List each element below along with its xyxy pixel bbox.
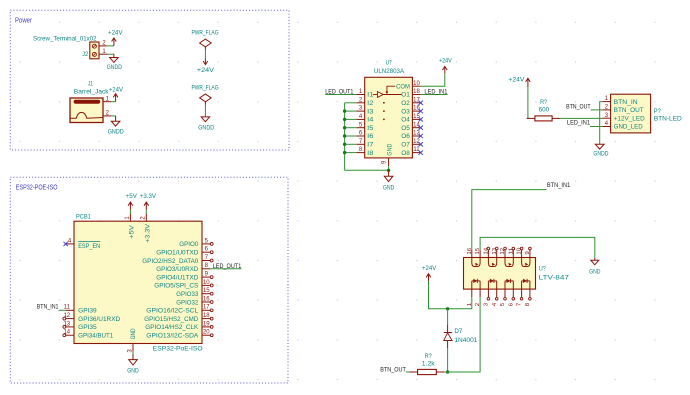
svg-text:GPIO14/HS2_CLK: GPIO14/HS2_CLK: [145, 325, 198, 331]
svg-text:PCB1: PCB1: [76, 213, 91, 220]
svg-text:U?: U?: [539, 266, 546, 273]
svg-text:GPIO33: GPIO33: [176, 292, 199, 298]
svg-text:LED_IN1: LED_IN1: [567, 119, 590, 126]
svg-text:+24V: +24V: [108, 30, 123, 36]
svg-text:+5V: +5V: [126, 194, 137, 200]
pin 8 of U? LTV-847 (bottom): [529, 289, 531, 297]
svg-text:GPIO2/HS2_DATA0: GPIO2/HS2_DATA0: [142, 259, 199, 265]
pin 20 GPIO13/I2C-SDA of PCB1: [202, 334, 210, 336]
power GND below PCB1: [132, 354, 134, 360]
svg-text:17: 17: [203, 305, 210, 311]
wire J2 pin1 to GNDD: [107, 53, 114, 55]
svg-text:GPIO0: GPIO0: [179, 242, 199, 248]
pin 14 O5 of U? (no-connect): [412, 127, 420, 129]
svg-text:J1: J1: [88, 81, 93, 88]
junction at D7 anode wire: [446, 307, 449, 310]
pin 4 ESP_EN of PCB1 (no-connect): [66, 243, 74, 245]
optocoupler cell 4 LED: [521, 281, 523, 289]
power +24V at ULN COM: [444, 67, 446, 74]
svg-text:+5V: +5V: [129, 225, 135, 239]
svg-text:I5: I5: [367, 126, 374, 132]
power GND below ULN: [388, 170, 390, 176]
pin 2 of J2: [99, 45, 107, 47]
junction at I8: [343, 151, 346, 154]
svg-text:LED_OUT1: LED_OUT1: [213, 263, 242, 270]
svg-text:LED_IN1: LED_IN1: [424, 88, 447, 95]
svg-text:11: 11: [508, 248, 514, 255]
optocoupler cell 2 phototransistor: [488, 258, 496, 267]
svg-text:P?: P?: [654, 108, 662, 115]
svg-text:6: 6: [508, 303, 514, 306]
pin 1 BTN_IN of P?: [602, 101, 610, 103]
svg-text:GND: GND: [383, 186, 395, 192]
svg-text:I4: I4: [367, 118, 374, 124]
svg-text:7: 7: [517, 303, 523, 306]
svg-text:GND_LED: GND_LED: [614, 125, 644, 131]
wire PWR_FLAG to GNDD: [204, 105, 206, 117]
svg-text:13: 13: [413, 131, 420, 137]
wire to I7: [345, 143, 357, 145]
svg-text:+3.3V: +3.3V: [140, 194, 156, 200]
pin 4 I4 of U? ULN2803A: [356, 118, 364, 120]
pin 3 +12V_LED of P?: [602, 117, 610, 119]
wire pin1 to +5V: [129, 210, 131, 214]
svg-text:+24V: +24V: [422, 266, 436, 272]
wire pin2 to +3.3V: [145, 210, 147, 214]
pin 4 GND_LED of P?: [602, 126, 610, 128]
svg-text:BTN_IN1: BTN_IN1: [547, 182, 571, 189]
svg-text:14: 14: [63, 330, 70, 336]
wire J2 pin2 to +24V: [107, 45, 114, 47]
svg-text:16: 16: [203, 296, 210, 302]
svg-text:J2: J2: [82, 51, 89, 58]
wire LED_IN1 to pin4: [590, 126, 602, 128]
svg-text:1.2k: 1.2k: [422, 361, 436, 368]
wire to I4: [345, 118, 357, 120]
svg-text:I8: I8: [367, 151, 374, 157]
power GNDD at J1: [115, 116, 117, 121]
wire O1 to LED_IN1: [421, 94, 448, 96]
svg-text:GPI36/U1RXD: GPI36/U1RXD: [78, 317, 121, 323]
pin 6 I6 of U? ULN2803A: [356, 135, 364, 137]
svg-text:I1: I1: [367, 93, 374, 99]
pin 15 GPIO33 of PCB1: [202, 293, 210, 295]
wire to I2: [345, 102, 357, 104]
svg-text:LTV-847: LTV-847: [539, 275, 570, 282]
svg-text:BTN_OUT: BTN_OUT: [380, 366, 406, 373]
wire bus to GND junction: [345, 169, 389, 171]
svg-text:1N4001: 1N4001: [454, 337, 478, 344]
wire pin9 to GND: [388, 166, 390, 170]
svg-text:D7: D7: [454, 328, 463, 335]
pin 15 O4 of U? (no-connect): [412, 118, 420, 120]
pin 13 of U? LTV-847 (top): [496, 250, 498, 258]
svg-text:O2: O2: [401, 101, 410, 107]
pin 16 O3 of U? (no-connect): [412, 110, 420, 112]
junction at I7: [343, 143, 346, 146]
wire pin15 to GND: [480, 237, 595, 258]
ULN2803A internal driver symbol: [377, 92, 383, 98]
pin 2 +3.3V of PCB1: [145, 214, 147, 222]
svg-text:GPIO5/SPI_CS: GPIO5/SPI_CS: [154, 284, 198, 290]
svg-text:GPI35: GPI35: [78, 325, 97, 331]
svg-text:15: 15: [203, 288, 210, 294]
wire +24V to pin1 of LTV: [429, 281, 472, 309]
svg-text:GPIO3/U0RXD: GPIO3/U0RXD: [156, 267, 199, 273]
svg-text:COM: COM: [396, 84, 410, 90]
resistor R? 1.2k: [409, 371, 417, 373]
svg-text:13: 13: [63, 321, 70, 327]
svg-text:GPIO32: GPIO32: [176, 300, 199, 306]
pin 5 of U? LTV-847 (bottom): [504, 289, 506, 297]
section box ESP32-POE-ISO: [10, 177, 288, 383]
svg-text:U?: U?: [386, 59, 392, 66]
pin 15 of U? LTV-847 (top): [479, 250, 481, 258]
svg-text:I3: I3: [367, 109, 374, 115]
svg-text:14: 14: [413, 122, 420, 128]
wire BTN_IN1 to pin 11: [59, 309, 66, 311]
svg-text:BTN-LED: BTN-LED: [654, 116, 683, 123]
svg-text:Screw_Terminal_01x02: Screw_Terminal_01x02: [33, 36, 97, 43]
svg-text:10: 10: [203, 280, 210, 286]
pin 16 GPIO32 of PCB1: [202, 301, 210, 303]
optocoupler cell 4 phototransistor: [522, 258, 530, 267]
pin 8 GPIO3/U0RXD of PCB1: [202, 268, 210, 270]
junction at I4: [343, 118, 346, 121]
wire to I5: [345, 127, 357, 129]
svg-text:12: 12: [413, 139, 420, 145]
svg-text:GPI34/BUT1: GPI34/BUT1: [78, 334, 114, 340]
svg-text:ESP32-PoE-ISO: ESP32-PoE-ISO: [153, 346, 203, 353]
svg-text:ULN2803A: ULN2803A: [374, 68, 405, 75]
power +24V at LTV: [428, 274, 430, 281]
optocoupler cell 2 LED: [487, 281, 489, 289]
svg-text:PWR_FLAG: PWR_FLAG: [191, 86, 218, 92]
pin 18 GPIO15/HS2_CMD of PCB1: [202, 318, 210, 320]
pin 13 GPI35 of PCB1 (unconnected): [66, 326, 74, 328]
pin 13 O6 of U? (no-connect): [412, 135, 420, 137]
svg-text:R?: R?: [540, 99, 547, 106]
svg-text:BTN_OUT: BTN_OUT: [614, 108, 644, 114]
svg-text:R?: R?: [425, 353, 432, 360]
svg-text:18: 18: [203, 313, 210, 319]
svg-text:GNDD: GNDD: [593, 152, 609, 158]
power GND right of LTV: [594, 258, 596, 260]
IC U? ULN2803A body: [365, 77, 413, 158]
pin 12 GPI36/U1RXD of PCB1 (unconnected): [66, 318, 74, 320]
power +24V at J2: [113, 38, 115, 46]
svg-text:+3.3V: +3.3V: [145, 224, 151, 243]
junction at I3: [343, 109, 346, 112]
wire BTN_IN1 to pin16: [472, 190, 547, 250]
svg-text:4: 4: [492, 303, 498, 306]
pin 3 of U? LTV-847 (bottom): [487, 289, 489, 297]
pin 10 of U? LTV-847 (top): [521, 250, 523, 258]
svg-text:GND: GND: [589, 270, 601, 276]
power +24V below PWR_FLAG: [204, 58, 206, 64]
wire to I6: [345, 135, 357, 137]
pin 11 O8 of U? (no-connect): [412, 152, 420, 154]
pin 1 +5V of PCB1: [129, 214, 131, 222]
power GNDD at J2: [113, 54, 115, 57]
pin 2 BTN_OUT of P?: [602, 109, 610, 111]
connector P? BTN-LED body: [611, 94, 651, 133]
power +24V at J1: [115, 94, 117, 102]
svg-text:+24V: +24V: [197, 68, 214, 74]
wire resistor to pin3 +12V_LED: [560, 117, 602, 119]
svg-text:13: 13: [492, 248, 498, 255]
power +3.3V: [145, 203, 147, 210]
pin 4 of U? LTV-847 (bottom): [496, 289, 498, 297]
pin 5 GPIO0 of PCB1: [202, 243, 210, 245]
pin 1 of J2: [99, 53, 107, 55]
svg-text:Power: Power: [15, 17, 33, 24]
svg-text:16: 16: [413, 106, 420, 112]
svg-text:10: 10: [413, 81, 420, 87]
pin 3 GND of PCB1: [132, 344, 134, 352]
pin 10 COM of U?: [412, 85, 420, 87]
wire to I3: [345, 110, 357, 112]
svg-text:GPIO16/I2C-SCL: GPIO16/I2C-SCL: [146, 309, 199, 315]
pin 7 GPIO2/HS2_DATA0 of PCB1: [202, 260, 210, 262]
pin 19 GPIO14/HS2_CLK of PCB1: [202, 326, 210, 328]
svg-text:5: 5: [500, 303, 506, 306]
pin 14 GPI34/BUT1 of PCB1 (unconnected): [66, 334, 74, 336]
pin 17 GPIO16/I2C-SCL of PCB1: [202, 309, 210, 311]
pin 6 of U? LTV-847 (bottom): [512, 289, 514, 297]
resistor R? 600: [527, 117, 535, 119]
svg-text:600: 600: [539, 106, 550, 113]
wire J1 pin1 to +24V: [111, 101, 115, 103]
wire pin1 BTN_IN to GNDD: [600, 102, 603, 144]
svg-text:I7: I7: [367, 143, 374, 149]
connector J2 Screw_Terminal_01x02: [90, 42, 99, 59]
wire J1 pin2 to GNDD: [111, 115, 115, 117]
pin 10 GPIO5/SPI_CS of PCB1: [202, 284, 210, 286]
power GNDD below PWR_FLAG: [201, 117, 209, 122]
svg-text:+24V: +24V: [109, 87, 123, 93]
module PCB1 ESP32-PoE-ISO body: [74, 221, 202, 343]
svg-text:GPIO4/U1TXD: GPIO4/U1TXD: [156, 275, 199, 281]
svg-text:GND: GND: [127, 368, 139, 374]
pin 9 of U? LTV-847 (top): [529, 250, 531, 258]
svg-text:15: 15: [413, 114, 420, 120]
optocoupler cell 1 phototransistor: [472, 258, 480, 267]
svg-text:GNDD: GNDD: [107, 65, 123, 71]
pin 9 GPIO4/U1TXD of PCB1: [202, 276, 210, 278]
section box Power: [10, 10, 289, 150]
IC U? LTV-847 body: [464, 258, 536, 290]
svg-text:+12V_LED: +12V_LED: [614, 116, 646, 122]
diode D7 1N4001: [447, 309, 449, 325]
svg-text:Barrel_Jack: Barrel_Jack: [74, 88, 110, 95]
svg-text:18: 18: [413, 89, 420, 95]
svg-text:BTN_IN1: BTN_IN1: [37, 304, 59, 311]
optocoupler cell 3 LED: [504, 281, 506, 289]
svg-text:GPIO13/I2C-SDA: GPIO13/I2C-SDA: [146, 334, 198, 340]
svg-text:O3: O3: [401, 109, 410, 115]
svg-text:9: 9: [525, 251, 531, 254]
junction at I6: [343, 134, 346, 137]
pin 5 I5 of U? ULN2803A: [356, 127, 364, 129]
svg-text:GNDD: GNDD: [108, 129, 125, 135]
power +24V at R600: [527, 79, 529, 87]
pin 3 I3 of U? ULN2803A: [356, 110, 364, 112]
svg-text:O8: O8: [401, 151, 410, 157]
svg-text:17: 17: [413, 97, 420, 103]
junction at ULN GND: [387, 169, 390, 172]
pin 12 of U? LTV-847 (top): [504, 250, 506, 258]
power GNDD below P?: [595, 144, 604, 149]
power +5V: [129, 203, 131, 210]
pin 7 of U? LTV-847 (bottom): [521, 289, 523, 297]
svg-text:8: 8: [525, 303, 531, 306]
svg-text:GPIO15/HS2_CMD: GPIO15/HS2_CMD: [144, 317, 199, 323]
svg-text:ESP32-POE-ISO: ESP32-POE-ISO: [16, 184, 58, 191]
svg-text:O4: O4: [401, 118, 410, 124]
pin 2 of U? LTV-847 (bottom): [479, 289, 481, 297]
wire to I8: [345, 152, 357, 154]
svg-text:BTN_IN: BTN_IN: [614, 100, 638, 106]
pin 11 of U? LTV-847 (top): [512, 250, 514, 258]
pin 11 GPI39 of PCB1: [66, 309, 74, 311]
wire bus joining I2-I8: [344, 103, 346, 171]
svg-text:11: 11: [413, 147, 420, 153]
wire LED_OUT1 to I1: [325, 94, 356, 96]
svg-text:+24V: +24V: [439, 59, 452, 65]
pin 17 O2 of U? (no-connect): [412, 102, 420, 104]
pin 1 of J1: [103, 101, 111, 103]
svg-text:GPI39: GPI39: [78, 309, 97, 315]
svg-text:BTN_OUT: BTN_OUT: [566, 103, 591, 110]
optocoupler cell 3 phototransistor: [505, 258, 513, 267]
svg-text:ESP_EN: ESP_EN: [78, 244, 100, 250]
wire COM to +24V: [421, 73, 445, 86]
svg-text:I6: I6: [367, 134, 374, 140]
pin 7 I7 of U? ULN2803A: [356, 143, 364, 145]
pin 2 of J1: [103, 115, 111, 117]
svg-text:O7: O7: [401, 143, 410, 149]
wire pin3 to GND: [132, 352, 134, 354]
svg-text:GND: GND: [387, 143, 393, 156]
svg-text:O1: O1: [401, 93, 410, 99]
wire BTN_OUT to resistor: [406, 371, 409, 373]
pin 2 I2 of U? ULN2803A: [356, 102, 364, 104]
wire BTN_OUT to pin2: [591, 109, 603, 111]
pin 18 O1 of U?: [412, 94, 420, 96]
optocoupler cell 1 LED: [471, 281, 473, 289]
svg-text:3: 3: [484, 303, 490, 306]
pin 9 GND of U?: [388, 158, 390, 166]
connector J1 Barrel_Jack: [70, 98, 103, 123]
pin 16 of U? LTV-847 (top): [471, 250, 473, 258]
svg-text:PWR_FLAG: PWR_FLAG: [191, 31, 218, 37]
svg-text:GPIO1/U0TXD: GPIO1/U0TXD: [156, 251, 199, 257]
junction at I5: [343, 126, 346, 129]
junction at D7 cathode wire: [446, 370, 449, 373]
pin 12 O7 of U? (no-connect): [412, 143, 420, 145]
pin 14 of U? LTV-847 (top): [487, 250, 489, 258]
svg-text:12: 12: [63, 313, 70, 319]
wire PWR_FLAG to +24V arrow: [204, 50, 206, 59]
svg-text:GND: GND: [131, 328, 137, 340]
wire +24V down to resistor: [528, 87, 529, 118]
pin 1 of U? LTV-847 (bottom): [471, 289, 473, 297]
svg-text:GNDD: GNDD: [198, 125, 215, 131]
pin 6 GPIO1/U0TXD of PCB1: [202, 251, 210, 253]
svg-text:I2: I2: [367, 101, 374, 107]
wire pin 8 to LED_OUT1: [210, 268, 241, 270]
svg-text:19: 19: [203, 321, 210, 327]
pin 8 I8 of U? ULN2803A: [356, 152, 364, 154]
svg-text:+24V: +24V: [508, 77, 524, 83]
pin 1 I1 of U? ULN2803A: [356, 94, 364, 96]
svg-text:O6: O6: [401, 134, 410, 140]
svg-text:12: 12: [500, 248, 506, 255]
svg-text:14: 14: [484, 248, 490, 255]
wire resistor to pin2 of LTV: [445, 297, 481, 372]
svg-text:10: 10: [517, 248, 523, 255]
svg-text:O5: O5: [401, 126, 410, 132]
svg-text:20: 20: [203, 330, 210, 336]
